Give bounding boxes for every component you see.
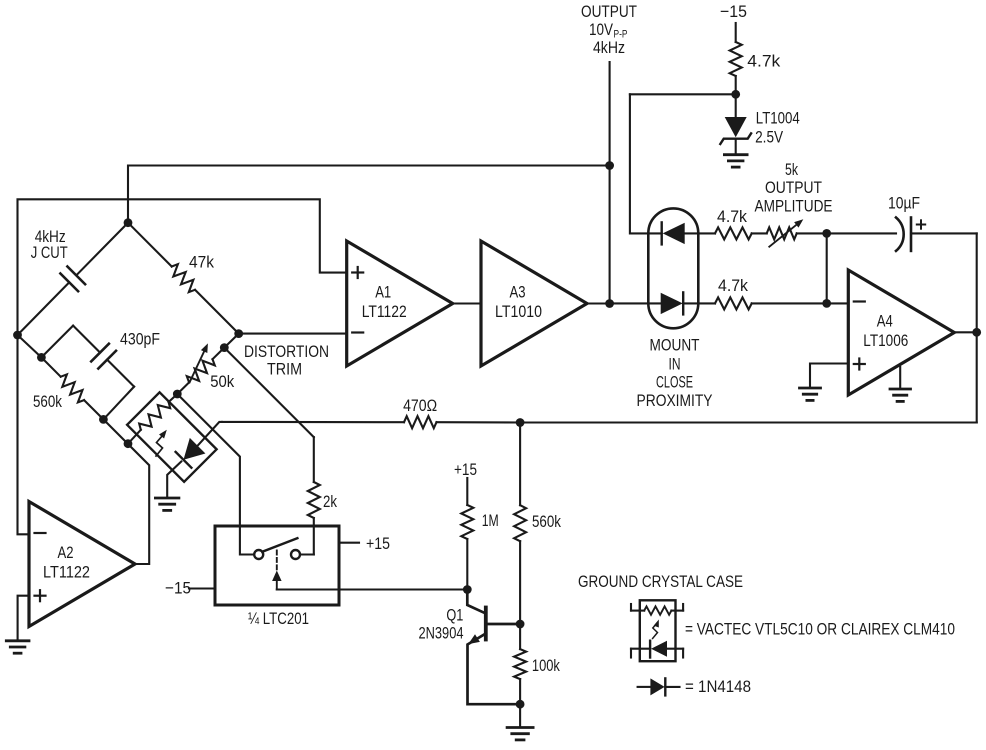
node Q1 collector junction xyxy=(463,585,472,594)
label -15 xyxy=(165,579,191,598)
label 50k xyxy=(210,372,234,391)
ground A2 xyxy=(6,641,29,653)
label 4.7k bias xyxy=(747,52,781,71)
label VACTEC equivalence xyxy=(685,620,955,639)
svg-text:560k: 560k xyxy=(33,392,62,411)
svg-text:4.7k: 4.7k xyxy=(718,276,748,295)
label +15 Q1 xyxy=(454,460,477,479)
wire A3 junction to bottom diode xyxy=(610,302,661,304)
label 4kHz output xyxy=(593,38,625,57)
label 5k xyxy=(785,160,798,179)
optocoupler arrow xyxy=(156,430,167,456)
wire output vertical xyxy=(609,62,611,304)
legend LED xyxy=(631,641,683,658)
diode LT1004 2.5V reference xyxy=(720,94,751,153)
label -15 top xyxy=(720,2,747,21)
svg-text:50k: 50k xyxy=(210,372,234,391)
wire top rail crystal-top to output node xyxy=(128,166,610,223)
label 100k xyxy=(532,656,560,675)
resistor 100k xyxy=(514,624,526,704)
svg-text:4.7k: 4.7k xyxy=(747,52,781,71)
wire switch control line to Q1 base node xyxy=(277,588,468,590)
switch contact left xyxy=(254,550,263,559)
label 10Vp-p xyxy=(589,20,628,41)
svg-text:2N3904: 2N3904 xyxy=(419,624,464,643)
node RC top xyxy=(37,353,46,362)
wire A4 power pin ground xyxy=(899,367,901,387)
label Q1 xyxy=(446,605,463,624)
svg-text:470Ω: 470Ω xyxy=(403,396,437,415)
svg-text:4kHz: 4kHz xyxy=(593,38,625,57)
svg-text:A2: A2 xyxy=(58,543,74,562)
op-amp A2 LT1122 xyxy=(29,502,135,627)
LED inside optocoupler xyxy=(176,438,206,468)
svg-text:Q1: Q1 xyxy=(446,605,463,624)
wire pot junction down to A4 input line xyxy=(826,233,828,303)
label IN xyxy=(669,354,681,373)
resistor 4.7k bias xyxy=(730,23,742,94)
wire LT1004 junction to pill xyxy=(630,93,736,95)
potentiometer 5k output amplitude xyxy=(767,219,827,247)
photoresistor LDR inside package xyxy=(128,394,177,444)
ground A4 input xyxy=(800,388,821,400)
svg-text:2k: 2k xyxy=(323,492,337,511)
node LT1004 junction xyxy=(731,90,740,99)
svg-text:¼ LTC201: ¼ LTC201 xyxy=(248,609,309,628)
label 4.7k lower xyxy=(718,276,748,295)
diode top (points left) in pill xyxy=(662,222,715,244)
svg-text:= 1N4148: = 1N4148 xyxy=(685,677,751,696)
wire A4 noninverting input to ground xyxy=(810,364,848,387)
label 47k xyxy=(189,253,214,272)
svg-text:DISTORTION: DISTORTION xyxy=(244,342,329,361)
wire A4 output xyxy=(954,331,976,333)
label CLOSE xyxy=(656,373,693,392)
svg-text:= VACTEC VTL5C10 OR CLAIREX CL: = VACTEC VTL5C10 OR CLAIREX CLM410 xyxy=(685,620,955,639)
wire corner link xyxy=(224,334,238,348)
wire LDR junction to switch xyxy=(177,394,254,555)
resistor 560k crystal network xyxy=(41,357,103,419)
resistor 4.7k lower xyxy=(715,297,848,309)
svg-text:GROUND CRYSTAL CASE: GROUND CRYSTAL CASE xyxy=(578,572,743,591)
legend optocoupler symbol box xyxy=(640,600,676,661)
wire right edge feedback xyxy=(976,233,978,422)
op-amp A1 LT1122 xyxy=(347,241,453,366)
label 560k right xyxy=(532,512,561,531)
switch arm xyxy=(262,538,297,552)
wire feedback line right segment xyxy=(520,421,977,423)
label 2.5V xyxy=(755,128,784,147)
node A4 input junction xyxy=(822,299,831,308)
wire diamond lower-left edge xyxy=(18,335,42,357)
node 470 line junction xyxy=(516,418,525,427)
label 2k xyxy=(323,492,337,511)
ground optocoupler LED xyxy=(155,498,179,510)
svg-text:LT1006: LT1006 xyxy=(863,331,908,350)
label +15 LTC201 xyxy=(366,534,390,553)
resistor 560k right xyxy=(514,423,526,625)
label J CUT xyxy=(31,243,68,262)
label 560k left xyxy=(33,392,62,411)
label OUTPUT xyxy=(581,2,637,21)
label DISTORTION xyxy=(244,342,329,361)
svg-text:430pF: 430pF xyxy=(120,329,160,348)
svg-text:560k: 560k xyxy=(532,512,561,531)
node output rail junction xyxy=(605,161,614,170)
ground A4 power xyxy=(890,389,911,401)
svg-text:5k: 5k xyxy=(785,160,798,179)
svg-text:LT1122: LT1122 xyxy=(43,562,90,581)
analog switch 1/4 LTC201 box xyxy=(215,526,339,605)
legend arrow xyxy=(653,620,659,639)
wire LT1004 node to top diode xyxy=(630,94,662,233)
svg-text:+15: +15 xyxy=(366,534,390,553)
svg-text:100k: 100k xyxy=(532,656,560,675)
svg-text:AMPLITUDE: AMPLITUDE xyxy=(755,197,833,216)
resistor 1M xyxy=(461,478,473,590)
node LDR-50k junction xyxy=(173,390,182,399)
node left crystal junction xyxy=(13,331,22,340)
wire -15 supply stub xyxy=(189,587,215,589)
wire junction to 10uF xyxy=(827,232,896,234)
svg-text:10µF: 10µF xyxy=(888,194,920,213)
svg-text:OUTPUT: OUTPUT xyxy=(581,2,637,21)
svg-text:TRIM: TRIM xyxy=(267,360,302,379)
LED cathode lead to ground xyxy=(167,462,181,498)
label OUTPUT AMPLITUDE 2 xyxy=(755,197,833,216)
resistor 47k xyxy=(128,223,239,334)
svg-text:−15: −15 xyxy=(720,2,747,21)
ground LT1004 xyxy=(724,155,747,167)
label plus 10uF xyxy=(917,220,925,228)
optocoupler VTL5C10 package outline xyxy=(127,392,217,482)
wire A1 out to A3 xyxy=(453,302,481,304)
label PROXIMITY xyxy=(637,391,713,410)
svg-text:47k: 47k xyxy=(189,253,214,272)
node pot junction xyxy=(822,229,831,238)
label MOUNT xyxy=(650,336,700,355)
capacitor 430pF xyxy=(41,326,134,420)
wire distortion node to 2k xyxy=(224,348,313,438)
node crystal top xyxy=(124,218,133,227)
label OUTPUT AMPLITUDE 1 xyxy=(765,178,822,197)
svg-text:+15: +15 xyxy=(454,460,477,479)
capacitor 10uF polarized xyxy=(896,218,977,251)
svg-text:A3: A3 xyxy=(510,283,526,302)
node RC bottom xyxy=(99,415,108,424)
op-amp A3 LT1010 xyxy=(481,241,587,366)
crystal Y1 4kHz J CUT xyxy=(18,223,129,335)
label 2N3904 xyxy=(419,624,464,643)
svg-text:−15: −15 xyxy=(165,579,191,598)
svg-text:LT1004: LT1004 xyxy=(756,109,800,128)
label TRIM xyxy=(267,360,302,379)
svg-text:J CUT: J CUT xyxy=(31,243,68,262)
svg-text:A1: A1 xyxy=(375,283,391,302)
label 10uF xyxy=(888,194,920,213)
diode bottom (points right) in pill xyxy=(661,292,715,314)
node A1 input corner xyxy=(234,329,243,338)
svg-text:MOUNT: MOUNT xyxy=(650,336,700,355)
svg-text:LT1010: LT1010 xyxy=(495,302,542,321)
node A4 output junction xyxy=(972,328,981,337)
svg-text:2.5V: 2.5V xyxy=(755,128,784,147)
switch contact right xyxy=(291,550,300,559)
svg-text:PROXIMITY: PROXIMITY xyxy=(637,391,713,410)
node emitter-100k junction xyxy=(516,700,525,709)
transistor Q1 2N3904 xyxy=(467,590,520,705)
svg-text:10V: 10V xyxy=(589,20,614,39)
label 1N4148 equivalence xyxy=(685,677,751,696)
wire to ground Q1 xyxy=(519,704,521,726)
legend diode 1N4148 xyxy=(638,678,680,695)
svg-text:IN: IN xyxy=(669,354,681,373)
wire A2 noninverting input to ground xyxy=(18,596,29,640)
svg-text:A4: A4 xyxy=(877,312,893,331)
wire crystal network to A2 output xyxy=(103,419,149,564)
label 1/4 LTC201 xyxy=(248,609,309,628)
label 4kHz xyxy=(35,227,66,246)
resistor 2k xyxy=(308,437,320,554)
label LT1004 xyxy=(756,109,800,128)
svg-text:4.7k: 4.7k xyxy=(717,207,747,226)
wire A3 out to junction xyxy=(587,302,610,304)
label 430pF xyxy=(120,329,160,348)
svg-text:1M: 1M xyxy=(482,511,499,530)
optocoupler diode pair pill outline xyxy=(648,208,698,328)
op-amp A4 LT1006 xyxy=(848,270,954,395)
label 4.7k upper xyxy=(717,207,747,226)
label 1M xyxy=(482,511,499,530)
svg-text:OUTPUT: OUTPUT xyxy=(765,178,822,197)
LED anode lead to 470 ohm wire xyxy=(198,422,222,446)
node 560k-100k-base junction xyxy=(516,620,525,629)
wire switch right terminal xyxy=(300,553,314,555)
node distortion trim junction xyxy=(220,343,229,352)
switch control dashed arrow xyxy=(272,551,282,590)
resistor 470 ohm xyxy=(222,416,520,428)
potentiometer 50k distortion trim xyxy=(177,343,224,394)
ground Q1 xyxy=(507,728,533,740)
resistor 4.7k upper xyxy=(715,227,767,239)
wire to A1 inverting input xyxy=(239,333,347,335)
svg-text:CLOSE: CLOSE xyxy=(656,373,693,392)
label 470 ohm xyxy=(403,396,437,415)
svg-text:LT1122: LT1122 xyxy=(362,302,407,321)
wire left feedback rail from top rail to A2 inverting input xyxy=(18,199,347,534)
wire +15 stub LTC201 xyxy=(339,542,359,544)
node LDR bottom junction xyxy=(124,439,133,448)
legend photoresistor xyxy=(631,604,683,615)
label GROUND CRYSTAL CASE xyxy=(578,572,743,591)
node A3 output junction xyxy=(605,299,614,308)
